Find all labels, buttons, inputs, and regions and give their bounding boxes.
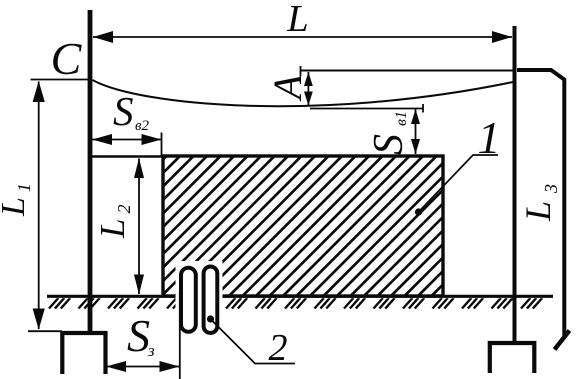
svg-text:A: A bbox=[265, 74, 310, 102]
svg-text:в2: в2 bbox=[135, 118, 150, 134]
svg-text:1: 1 bbox=[478, 112, 501, 163]
svg-text:S: S bbox=[127, 310, 150, 361]
svg-text:C: C bbox=[51, 33, 83, 84]
svg-text:з: з bbox=[147, 341, 155, 360]
svg-text:S: S bbox=[113, 88, 134, 134]
svg-text:L: L bbox=[286, 0, 308, 40]
svg-text:2: 2 bbox=[269, 327, 288, 369]
